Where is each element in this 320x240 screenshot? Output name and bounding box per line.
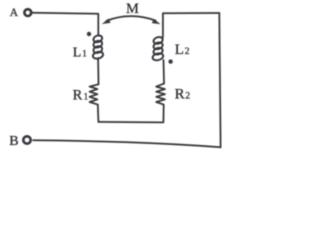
arrowhead left of M arrow — [102, 19, 111, 25]
arrowhead right of M arrow — [152, 19, 161, 25]
terminal A — [24, 9, 31, 16]
resistor R1 — [90, 84, 99, 104]
wire R1 to bottom-middle — [97, 105, 100, 122]
terminal B — [23, 136, 30, 143]
wire L1 to R1 — [97, 58, 99, 84]
polarity dot L1 — [87, 32, 91, 36]
svg-text:R2: R2 — [175, 87, 191, 103]
wire L2 top to right rail — [163, 13, 219, 37]
svg-text:L2: L2 — [175, 42, 190, 58]
inductor L1 — [92, 34, 104, 59]
wire R2 to L2 — [163, 60, 166, 84]
wire bottom (B to right rail) — [33, 140, 220, 147]
polarity dot L2 — [168, 59, 172, 63]
wire right rail — [219, 13, 220, 147]
inductor L2 — [152, 36, 164, 61]
wire bottom middle (R1 to R2) — [98, 105, 163, 123]
svg-text:L1: L1 — [73, 46, 87, 61]
resistor R2 — [156, 84, 165, 105]
svg-text:B: B — [9, 134, 18, 149]
svg-text:A: A — [10, 7, 19, 19]
wire A to L1 branch top — [33, 13, 99, 36]
svg-text:R1: R1 — [73, 88, 89, 104]
mutual coupling arrow M — [107, 16, 156, 21]
svg-text:M: M — [126, 1, 139, 17]
